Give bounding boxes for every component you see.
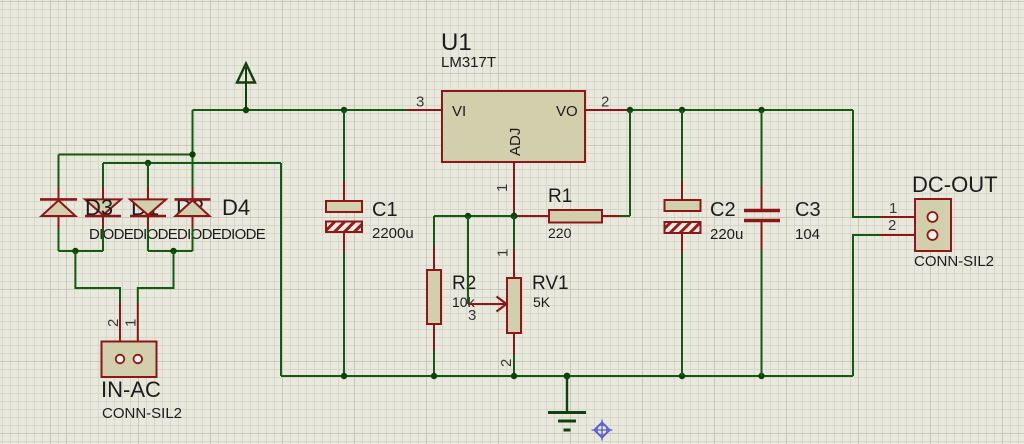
node junction ADJ R1 RV1 (511, 213, 518, 220)
wire B D2 D3 anodes to 0V drop (103, 162, 281, 164)
svg-text:220u: 220u (710, 226, 743, 243)
svg-text:1: 1 (494, 184, 511, 192)
svg-text:2200u: 2200u (372, 225, 414, 242)
wire D2 top lead (102, 163, 104, 199)
node junction C2 on bus (679, 373, 685, 379)
wire D1 top lead (58, 155, 60, 200)
svg-text:DIODEDIODEDIODEDIODE: DIODEDIODEDIODEDIODE (89, 226, 266, 243)
svg-text:5K: 5K (533, 294, 551, 310)
node junction C2 on rail (679, 107, 685, 113)
svg-text:VO: VO (556, 103, 578, 120)
node junction C3 on bus (758, 373, 764, 379)
pin 2 VO stub (585, 109, 626, 111)
svg-text:C3: C3 (795, 199, 821, 221)
wire D3 cathode to D4 anode (147, 228, 149, 251)
diode D3 (130, 199, 166, 228)
diode D1 (40, 199, 77, 228)
node junction wire A into rail drop (189, 151, 195, 157)
node junction D3 on wire B (145, 160, 151, 166)
capacitor C1 (326, 110, 362, 376)
svg-text:IN-AC: IN-AC (101, 377, 161, 402)
svg-text:U1: U1 (441, 29, 472, 56)
pin 3 VI stub (407, 109, 442, 111)
svg-text:R2: R2 (452, 273, 476, 294)
svg-text:D4: D4 (222, 195, 250, 220)
potentiometer RV1 (507, 216, 521, 376)
node junction R2 on bus (431, 373, 437, 379)
power symbol VCC arrow (237, 64, 255, 111)
wire D3 top lead (147, 163, 149, 199)
svg-text:1: 1 (123, 319, 140, 327)
wire 0V vertical drop from wire B (280, 163, 282, 376)
node junction AC tap left (72, 248, 78, 254)
svg-text:220: 220 (548, 225, 572, 241)
wire 0V bottom bus (281, 375, 853, 377)
svg-text:C1: C1 (372, 199, 398, 221)
wire rail to DC-OUT pin 1 (853, 110, 928, 217)
svg-text:R1: R1 (548, 186, 572, 207)
node junction ground on bus (564, 373, 571, 380)
ground symbol (548, 376, 586, 430)
wire DC-OUT pin 2 to bus (853, 235, 928, 376)
diode D4 (175, 199, 211, 228)
wire AC right to IN-AC pin 1 (138, 251, 174, 355)
node junction R1 feedback on rail (627, 107, 633, 113)
svg-text:D3: D3 (85, 195, 113, 220)
svg-text:2: 2 (498, 359, 515, 367)
node junction C3 on rail (758, 107, 764, 113)
node junction RV1 on bus (511, 373, 517, 379)
wire rail drop to D4 cathode (192, 110, 194, 199)
resistor R1 (516, 210, 630, 223)
node junction C1 on bus (341, 373, 347, 379)
wire top rail left segment (193, 109, 408, 111)
origin marker (592, 420, 613, 441)
svg-text:LM317T: LM317T (441, 54, 496, 71)
wire AC left to IN-AC pin 2 (75, 251, 120, 355)
wire A D1 cathode to rail drop (59, 154, 193, 156)
svg-text:2: 2 (601, 94, 609, 111)
svg-text:1: 1 (889, 200, 897, 217)
svg-text:2: 2 (105, 319, 122, 327)
svg-text:RV1: RV1 (532, 273, 569, 294)
svg-text:3: 3 (416, 94, 424, 111)
wire ADJ node to R2 (434, 215, 514, 217)
svg-text:C2: C2 (710, 199, 736, 221)
svg-text:3: 3 (468, 307, 476, 324)
wire R1 right up to rail (629, 110, 631, 216)
node junction power arrow on rail (243, 107, 249, 113)
pin 1 ADJ stub (513, 162, 515, 216)
node junction AC tap right (170, 248, 176, 254)
node junction C1 on rail (341, 107, 347, 113)
svg-text:ADJ: ADJ (507, 128, 524, 156)
svg-text:DC-OUT: DC-OUT (912, 172, 998, 197)
capacitor C3 (744, 110, 780, 376)
svg-text:VI: VI (452, 103, 466, 120)
svg-text:104: 104 (795, 226, 820, 243)
node junction wiper tap (465, 213, 471, 219)
resistor R2 (427, 216, 441, 376)
svg-text:2: 2 (888, 217, 896, 234)
wire top rail right segment (626, 109, 853, 111)
regulator U1 LM317T (442, 91, 585, 162)
connector DC-OUT (915, 199, 951, 251)
svg-text:CONN-SIL2: CONN-SIL2 (914, 253, 994, 270)
diode D2 (85, 199, 121, 228)
svg-text:CONN-SIL2: CONN-SIL2 (102, 405, 182, 422)
wire D1 anode to D2 cathode (58, 228, 60, 251)
connector IN-AC (102, 342, 157, 378)
svg-text:1: 1 (495, 249, 512, 257)
capacitor C2 (665, 110, 701, 376)
wire wiper from tap to RV1 arrow (468, 216, 507, 312)
